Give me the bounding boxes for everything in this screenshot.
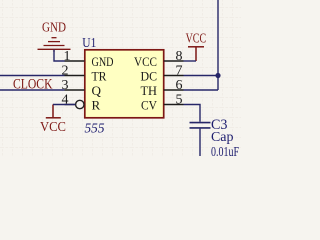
pin 6 (141, 78, 184, 98)
wire C3 down (199, 129, 201, 156)
pin 4 with inversion bubble (62, 93, 101, 113)
pin 7 (141, 64, 184, 84)
junction (215, 73, 220, 78)
pin 8 (134, 49, 184, 69)
svg-text:R: R (92, 98, 101, 113)
capacitor C3 plates (190, 123, 211, 128)
svg-text:CV: CV (141, 98, 158, 113)
svg-text:VCC: VCC (134, 54, 157, 69)
svg-text:4: 4 (62, 93, 69, 108)
pin 2 (62, 64, 107, 84)
pin 3 (62, 78, 102, 98)
svg-text:TH: TH (141, 83, 158, 98)
wire CLOCK to pin 3 (0, 89, 65, 91)
vertical wire net (217, 0, 219, 90)
svg-text:0.01uF: 0.01uF (211, 145, 239, 156)
svg-text:VCC: VCC (186, 31, 207, 46)
wire pin5 to C3 (184, 105, 201, 122)
pin 1 (64, 49, 114, 69)
svg-text:U1: U1 (82, 36, 96, 51)
svg-text:Cap: Cap (211, 130, 234, 145)
svg-text:555: 555 (85, 122, 105, 137)
svg-text:TR: TR (92, 69, 107, 84)
svg-text:8: 8 (176, 49, 183, 64)
svg-text:7: 7 (176, 64, 183, 79)
svg-text:GND: GND (92, 54, 114, 69)
svg-text:DC: DC (141, 69, 158, 84)
wire pin7 to net (184, 75, 219, 77)
svg-text:5: 5 (176, 93, 183, 108)
IC U1 body (85, 50, 164, 118)
power port VCC (bottom left) (46, 105, 61, 118)
svg-text:GND: GND (42, 20, 66, 35)
wire to pin 2 (0, 75, 65, 77)
svg-text:Q: Q (92, 83, 102, 98)
power port VCC (top right) (188, 47, 204, 61)
ground (38, 38, 71, 52)
svg-text:VCC: VCC (40, 120, 66, 135)
wire pin6 to net (184, 89, 219, 91)
wire pin4 to VCC (53, 104, 75, 106)
svg-text:6: 6 (176, 78, 183, 93)
svg-text:1: 1 (64, 49, 71, 64)
svg-text:3: 3 (62, 78, 69, 93)
wire GND to pin 1 (54, 50, 65, 62)
pin 5 (141, 93, 184, 113)
svg-text:2: 2 (62, 64, 69, 79)
wire pin8 to VCC (184, 60, 197, 62)
